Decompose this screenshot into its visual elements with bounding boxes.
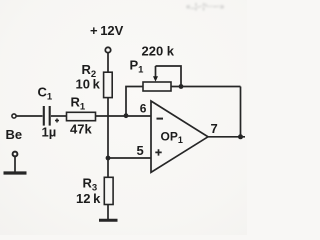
faint page-top text remnant: [186, 2, 225, 11]
svg-text:12 k: 12 k: [76, 191, 101, 206]
capacitor C1: [44, 106, 59, 126]
wire pot right to feedback: [171, 86, 241, 88]
svg-text:47k: 47k: [70, 122, 92, 137]
svg-text:7: 7: [211, 121, 218, 136]
svg-text:1µ: 1µ: [42, 125, 57, 140]
op-amp OP1: [151, 101, 208, 172]
svg-text:+ 12V: + 12V: [90, 23, 124, 38]
potentiometer P1: [143, 66, 171, 91]
input terminal Be: [12, 114, 16, 118]
supply terminal +12V: [105, 47, 110, 52]
junction wiper / pot right: [179, 84, 184, 89]
wire wiper to right terminal: [156, 66, 182, 87]
ground (R3): [99, 219, 118, 222]
wire pin 5: [108, 157, 151, 159]
resistor R3: [104, 177, 113, 204]
wire R3 to ground: [107, 205, 109, 220]
wire terminal to input ground: [14, 156, 16, 171]
junction output / feedback: [238, 134, 243, 139]
wire R2 down through pin6 crossover to divider node: [107, 98, 109, 158]
wire pot left terminal: [126, 87, 143, 116]
svg-text:6: 6: [140, 102, 147, 116]
wire R1 to pin 6: [96, 115, 152, 117]
svg-text:«..¦-·¦¹··–·»: «..¦-·¦¹··–·»: [186, 2, 225, 11]
wire input to C1: [16, 115, 42, 117]
svg-text:Be: Be: [6, 127, 23, 142]
ground terminal (input): [13, 152, 18, 157]
wire divider node to R3: [107, 158, 109, 177]
svg-text:10 k: 10 k: [76, 77, 101, 92]
wire C1 to R1: [51, 115, 67, 117]
svg-text:5: 5: [137, 143, 144, 158]
svg-text:220 k: 220 k: [142, 44, 175, 59]
resistor R2: [104, 72, 113, 97]
wire feedback vertical: [240, 87, 242, 137]
output wire pin 7: [208, 136, 245, 138]
resistor R1: [67, 112, 96, 120]
junction divider / pin 5: [106, 156, 111, 161]
wire +12V to R2: [107, 53, 109, 72]
ground (input): [4, 171, 27, 174]
junction feedback / pin6 line: [124, 113, 129, 118]
